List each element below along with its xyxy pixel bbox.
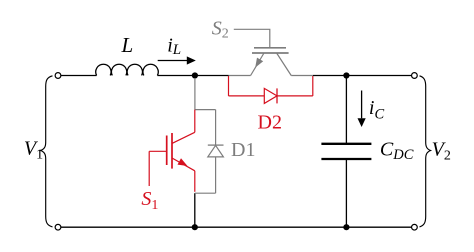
svg-text:CDC: CDC xyxy=(380,138,414,163)
svg-text:iC: iC xyxy=(369,97,385,123)
svg-text:S1: S1 xyxy=(141,188,158,213)
svg-text:V1: V1 xyxy=(24,137,43,162)
svg-text:D2: D2 xyxy=(258,112,282,134)
svg-text:iL: iL xyxy=(167,35,181,59)
svg-text:V2: V2 xyxy=(432,139,451,164)
svg-text:S2: S2 xyxy=(212,18,229,42)
svg-text:D1: D1 xyxy=(231,139,255,161)
svg-text:L: L xyxy=(121,33,134,57)
